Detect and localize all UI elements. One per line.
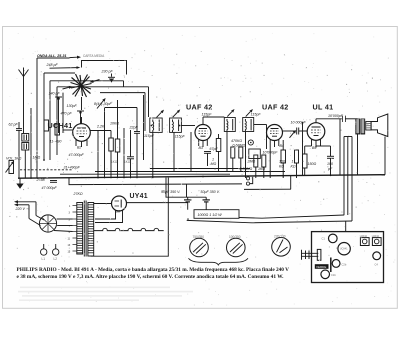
wire to panel: [345, 221, 347, 232]
wire: [127, 202, 188, 204]
svg-text:248 pF: 248 pF: [46, 63, 59, 67]
connector circles below bus: [246, 177, 249, 180]
wire: [105, 107, 138, 109]
svg-text:2,2K: 2,2K: [96, 125, 105, 129]
wire: [384, 137, 386, 175]
svg-text:B3: B3: [199, 146, 203, 150]
IF transformer can 1: [150, 118, 162, 132]
svg-text:UAF42: UAF42: [360, 235, 368, 238]
wire: [167, 178, 169, 231]
UAF 42 designator: [186, 103, 213, 112]
IF transformer can 3: [224, 118, 235, 132]
wire grid top: [81, 117, 83, 124]
resistor 0.68M: [233, 144, 246, 148]
capacitor 470pF: [61, 112, 73, 116]
resistor 100K: [279, 160, 285, 169]
wire: [190, 132, 192, 172]
svg-text:B2: B2: [77, 145, 81, 149]
IF transformer can 2: [170, 118, 182, 132]
svg-text:2=98: 2=98: [36, 178, 45, 182]
antenna: [19, 70, 24, 77]
wire: [49, 81, 51, 160]
svg-text:1000Ω 1 1/2 W: 1000Ω 1 1/2 W: [198, 213, 223, 217]
wire: [100, 92, 145, 94]
power transformer primary: [77, 203, 83, 255]
antenna coil L2: [22, 143, 29, 151]
tube UAF42 first pins: [198, 140, 200, 147]
svg-text:B5: B5: [312, 146, 316, 150]
transformer taps: [73, 206, 77, 252]
svg-text:pF: pF: [327, 167, 333, 171]
svg-text:750/350: 750/350: [193, 235, 205, 239]
svg-text:1MΩ: 1MΩ: [33, 156, 41, 160]
svg-text:10KΩ: 10KΩ: [110, 122, 119, 126]
node label B5: [312, 146, 316, 150]
capacitor osc: [127, 156, 134, 158]
svg-text:100/350: 100/350: [229, 235, 241, 239]
wire: [357, 134, 359, 175]
resistor 1K: [258, 167, 265, 171]
wire screen: [303, 130, 308, 132]
wire: [148, 87, 150, 117]
wire: [62, 93, 64, 133]
svg-text:L2: L2: [54, 257, 58, 261]
capacitor 22pF: [129, 125, 139, 129]
wire: [50, 80, 89, 82]
svg-text:VOL.1KΩ: VOL.1KΩ: [6, 157, 22, 161]
capacitor 115pF: [251, 112, 262, 116]
capacitor 115pF: [175, 134, 186, 138]
svg-text:1: 1: [212, 158, 214, 162]
band switch contact: [55, 124, 60, 135]
fuse L2: [53, 249, 59, 255]
jack: [248, 140, 253, 145]
capacitor 50uF 350V second: [201, 190, 220, 194]
tube UL41 pins: [311, 139, 313, 146]
resistor 0.05M: [240, 167, 253, 171]
wire: [57, 86, 95, 88]
svg-text:115pF: 115pF: [251, 112, 262, 116]
wire: [351, 137, 353, 222]
svg-text:220/130: 220/130: [274, 235, 286, 239]
tube UY41 pins: [115, 211, 117, 215]
node label B2: [77, 145, 81, 149]
wire: [90, 130, 111, 132]
svg-text:47 000pF: 47 000pF: [42, 186, 58, 190]
mains cable plug: [302, 252, 319, 254]
resistor 1M: [211, 158, 217, 167]
capacitor 10000pF box: [249, 149, 260, 159]
svg-text:PHILIPS RADIO - Mod. BI 491 A: PHILIPS RADIO - Mod. BI 491 A - Media, c…: [17, 268, 290, 273]
svg-text:e 38 mA, schermo 190 V e 7,3 m: e 38 mA, schermo 190 V e 7,3 mA. Altre p…: [17, 275, 284, 280]
wire: [81, 97, 83, 110]
resistor 470K: [231, 139, 242, 143]
wire: [104, 108, 106, 178]
wire: [143, 95, 145, 160]
panel trimmer UAF42 b: [372, 238, 381, 246]
capacitor 62pF: [9, 123, 19, 127]
node label ONDA ALL. 25-31: [37, 54, 67, 58]
node label CARTA MEDIA: [83, 54, 105, 58]
wire: [60, 173, 230, 175]
wire: [69, 178, 242, 185]
capacitor 67pF: [210, 147, 219, 151]
wire: [30, 108, 32, 178]
wire: [123, 128, 125, 178]
electrolytic feed wire: [166, 178, 206, 198]
svg-text:115pF: 115pF: [202, 112, 213, 116]
panel socket UCH41: [338, 243, 350, 255]
variable tuning capacitor gang: [71, 74, 92, 97]
tap numbers: [68, 205, 72, 254]
wire: [152, 132, 154, 178]
svg-text:C1b: C1b: [331, 273, 336, 277]
svg-text:C1: C1: [322, 237, 326, 241]
wire B+ line: [239, 215, 344, 218]
potentiometer volume 1K: [6, 157, 22, 161]
panel socket C2b: [332, 260, 340, 268]
panel trimmer UAF42 a: [360, 238, 369, 246]
resistor 2M: [247, 160, 256, 164]
wire: [44, 72, 75, 74]
resistor 10K: [110, 122, 119, 126]
node label B4: [280, 144, 284, 148]
wire: [203, 116, 224, 118]
tuning arrow right: [93, 80, 100, 82]
capacitor 47000pF: [42, 186, 58, 190]
tuning arrow left: [63, 87, 70, 89]
dial lamp 1: [190, 238, 209, 257]
wire: [245, 132, 247, 179]
tube UAF42 first: [195, 125, 211, 141]
wire: [144, 93, 146, 131]
UL41 designator: [313, 103, 334, 112]
svg-text:220 V ∼: 220 V ∼: [15, 207, 29, 211]
svg-text:1KΩ: 1KΩ: [111, 160, 118, 164]
wire: [97, 131, 99, 178]
svg-text:UAF42: UAF42: [372, 235, 380, 238]
wire: [226, 132, 228, 172]
tube UAF42 second pins: [269, 140, 271, 147]
svg-text:L1: L1: [42, 257, 46, 261]
panel socket C1: [329, 234, 338, 243]
svg-text:27KΩ: 27KΩ: [73, 192, 83, 196]
wire: [95, 86, 149, 88]
wire: [347, 137, 349, 216]
wire: [173, 132, 175, 171]
svg-text:B6: B6: [116, 210, 120, 214]
wire plate: [315, 119, 317, 123]
tube UY41: [112, 196, 127, 211]
resistor 27K: [73, 192, 83, 196]
svg-text:67pF: 67pF: [210, 147, 219, 151]
svg-text:1: 1: [292, 160, 294, 164]
dial lamp 3: [272, 238, 291, 257]
page texture: [4, 31, 396, 306]
heater line with bumps: [94, 228, 164, 230]
wire: [254, 124, 267, 126]
wire: [82, 61, 127, 75]
switch: [35, 202, 37, 216]
wire: [24, 150, 26, 178]
UY41 designator: [130, 193, 148, 200]
wire: [290, 176, 292, 190]
capacitor 115pF: [144, 134, 155, 138]
UAF 42 designator: [262, 103, 289, 112]
wire UY41 heater: [95, 214, 123, 223]
wire: [37, 57, 70, 59]
capacitor 115pF: [202, 112, 213, 116]
wire: [244, 188, 291, 190]
node label 31+490pF: [64, 166, 81, 170]
capacitor 230pF: [101, 69, 114, 73]
capacitor 47.000pF: [69, 153, 85, 157]
svg-text:0,05MΩ: 0,05MΩ: [240, 167, 253, 171]
bleed-through shadow: [18, 287, 193, 302]
svg-text:470KΩ: 470KΩ: [231, 139, 242, 143]
wire: [89, 80, 124, 82]
wire: [250, 177, 253, 184]
capacitor 248pF: [46, 63, 59, 67]
node label L1 L2: [42, 257, 58, 261]
svg-text:11- 490: 11- 490: [50, 139, 62, 143]
panel VERDE tag: [315, 264, 329, 269]
svg-text:115pF: 115pF: [175, 134, 186, 138]
UCH41 designator: [48, 121, 73, 130]
svg-text:CARTA MEDIA: CARTA MEDIA: [83, 54, 105, 58]
wire AVC dashed: [20, 169, 72, 171]
wire: [95, 171, 285, 173]
svg-text:UCH41: UCH41: [48, 121, 73, 130]
wire: [339, 119, 341, 175]
svg-text:KΩ: KΩ: [291, 164, 296, 168]
power transformer core: [83, 201, 85, 257]
svg-text:62 pF: 62 pF: [9, 123, 19, 127]
wire: [186, 185, 188, 198]
ground: [19, 178, 21, 183]
wire arrow: [70, 56, 78, 58]
node label 10 000pF left: [0, 0, 1, 1]
node label 2+98: [36, 178, 45, 182]
svg-text:UY41: UY41: [130, 193, 148, 200]
dial lamp 2 label: [229, 235, 241, 239]
svg-text:10’000pF: 10’000pF: [328, 114, 344, 118]
capacitor 140pF: [49, 92, 61, 96]
wire: [123, 81, 125, 87]
mains arrow 2: [18, 204, 30, 206]
capacitor 100pF cathode: [327, 162, 333, 171]
wire: [50, 67, 77, 70]
antenna coil L1: [22, 134, 29, 142]
svg-text:C2b: C2b: [342, 263, 347, 267]
wire: [63, 129, 73, 131]
scan speckle noise: [9, 50, 390, 258]
svg-text:230 pF: 230 pF: [101, 69, 114, 73]
junction dots on bus: [30, 159, 331, 179]
svg-text:8(4÷)-30pF: 8(4÷)-30pF: [94, 102, 113, 106]
svg-text:47.000pF: 47.000pF: [69, 153, 85, 157]
wire: [56, 87, 58, 155]
wire: [181, 125, 195, 127]
wire heater return: [91, 231, 169, 257]
svg-text:↗: ↗: [162, 189, 165, 193]
svg-text:1KΩ: 1KΩ: [258, 167, 265, 171]
svg-text:MΩ: MΩ: [211, 162, 217, 166]
svg-text:140 pF: 140 pF: [49, 92, 61, 96]
wire heater B line: [187, 220, 352, 222]
wire: [202, 117, 204, 125]
svg-text:130pF: 130pF: [67, 104, 78, 108]
trimmer 8(4+)-30pF: [94, 102, 113, 106]
svg-text:150Ω: 150Ω: [308, 162, 317, 166]
mains arrow 1: [18, 201, 37, 203]
brace: [189, 258, 249, 265]
power transformer secondary: [88, 203, 94, 257]
panel wire: [330, 258, 332, 273]
fuse L1: [41, 249, 47, 255]
svg-text:UAF 42: UAF 42: [262, 103, 289, 112]
resistor 2.2K: [96, 125, 105, 129]
svg-text:UCH41: UCH41: [340, 249, 348, 251]
dial lamp 2: [227, 238, 246, 257]
resistor 150 ohm cathode: [308, 162, 317, 166]
panel socket C4: [373, 252, 381, 260]
capacitor 10'000pF plate: [328, 114, 344, 118]
chassis bus: [18, 175, 385, 179]
capacitor 50uF 350V first: [161, 190, 180, 194]
svg-text:UL 41: UL 41: [313, 103, 334, 112]
svg-text:UAF 42: UAF 42: [186, 103, 213, 112]
wire: [187, 218, 189, 220]
volume arrow: [290, 133, 294, 138]
voltage selector: [39, 215, 56, 232]
wire: [269, 146, 271, 178]
wire: [36, 58, 38, 178]
resistor 1K anode: [291, 160, 296, 169]
tube UL41: [307, 123, 325, 141]
tube UCH41 pins: [75, 140, 77, 146]
wire: [343, 137, 345, 216]
IF transformer can 4: [243, 118, 254, 132]
node label 11-490: [50, 139, 62, 143]
svg-text:100: 100: [327, 162, 333, 166]
node label B6: [116, 210, 120, 214]
tube UCH41: [73, 124, 91, 142]
panel socket C1b: [321, 270, 330, 279]
chassis panel: [312, 232, 384, 283]
dial lamp 1 label: [193, 235, 205, 239]
capacitor 130pF: [67, 104, 78, 108]
wire: [94, 203, 112, 205]
dial lamp 3 label: [274, 235, 286, 239]
output transformer: [356, 119, 365, 134]
resistor 1M: [33, 156, 41, 160]
wire selector to transformer: [57, 218, 73, 220]
wire: [266, 125, 268, 150]
svg-text:VERDE: VERDE: [316, 265, 326, 269]
wire: [43, 73, 45, 160]
wire UY41 heater: [95, 214, 116, 219]
speaker: [366, 122, 371, 131]
resistor 1000 ohm 1 1/2 W: [194, 210, 239, 219]
tube UAF42 second: [267, 125, 283, 141]
capacitor 10000pF coupling: [291, 120, 307, 124]
band switch contact: [44, 120, 49, 131]
svg-text:1KΩ: 1KΩ: [124, 160, 131, 164]
resistor screen: [216, 139, 221, 152]
node label B3: [199, 146, 203, 150]
svg-text:C4: C4: [375, 262, 379, 266]
svg-text:10 000pF: 10 000pF: [291, 120, 307, 124]
wire: [150, 168, 250, 170]
node label 220V: [15, 207, 29, 211]
svg-text:470 pF: 470 pF: [61, 112, 73, 116]
svg-text:31+490pF: 31+490pF: [64, 166, 81, 170]
